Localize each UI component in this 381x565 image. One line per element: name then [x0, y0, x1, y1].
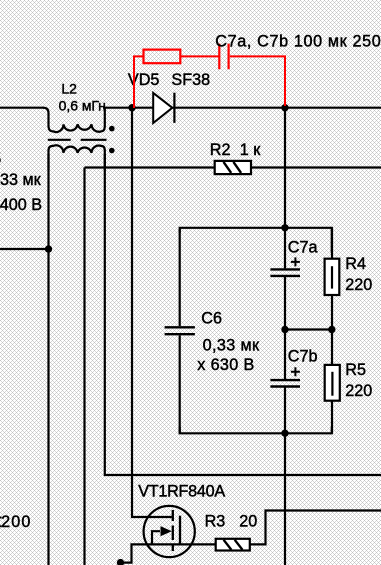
svg-text:C7a: C7a: [288, 238, 318, 256]
capacitor C7a plates: [270, 269, 300, 276]
resistor R2 slashes: [224, 162, 242, 173]
resistor R4 body: [325, 259, 340, 295]
wire: vertical V2 x=84.5 (R2 wire down to bottom): [83, 168, 85, 565]
wire: vertical V3 x=104.8 down from bottom winding, corner to right: [105, 154, 381, 475]
snubber resistor (red) leads: [134, 56, 285, 108]
node: junction V1/y249: [45, 245, 52, 252]
svg-text:0,33 мк: 0,33 мк: [0, 171, 42, 189]
MOSFET VT1 right electrode bar: [179, 516, 181, 546]
svg-text:R3: R3: [205, 513, 226, 531]
svg-text:R2: R2: [210, 141, 231, 159]
wire: vertical V5 x=285 from bus down to bottom edge: [284, 108, 286, 565]
svg-text:220: 220: [345, 276, 372, 294]
svg-text:х 630 В: х 630 В: [197, 356, 254, 374]
MOSFET VT1 arrow shaft and L-wire: [152, 531, 160, 544]
resistor R5 body: [325, 365, 340, 401]
wire: mid junction horizontal y=329.5: [285, 328, 332, 330]
node: junction loop bottom x=285: [281, 430, 288, 437]
resistor R5 inner mark: [331, 372, 333, 396]
wire: C6 branch vertical x=179.7: [179, 229, 181, 433]
wire: main top bus y=107.7 left segment: [0, 107, 44, 109]
svg-text:220: 220: [345, 382, 372, 400]
svg-text:L2: L2: [61, 80, 77, 96]
wire: loop bottom y=433: [180, 427, 332, 433]
svg-text:C6: C6: [201, 309, 222, 327]
inductor L2 bottom winding: [49, 145, 105, 170]
svg-text:1 к: 1 к: [240, 141, 262, 159]
node: bus junction at x=285: [281, 104, 288, 111]
capacitor C7b plates: [270, 380, 300, 386]
resistor R2 body: [215, 161, 251, 174]
diode VD5 cathode bar: [173, 93, 175, 123]
svg-text:SF38: SF38: [171, 71, 210, 89]
inductor L2 top winding: [43, 108, 105, 132]
svg-text:400 В: 400 В: [0, 196, 42, 214]
L2 core line (two dashes): [48, 139, 107, 141]
resistor R4 leads: [331, 228, 333, 330]
wire: R2 horizontal y=167.5: [85, 166, 381, 168]
wire: loop top y=227.8: [180, 228, 332, 253]
svg-text:5: 5: [0, 150, 1, 168]
svg-text:0,33 мк: 0,33 мк: [203, 337, 260, 355]
resistor R5 leads: [331, 330, 333, 434]
node: source end dot: [117, 559, 124, 565]
node: junction mid x=285: [281, 326, 288, 333]
node: junction loop top x=285: [281, 224, 288, 231]
snubber resistor (red) body: [144, 50, 181, 64]
capacitor C7a plus sign: [291, 257, 300, 266]
MOSFET VT1 channel dashed line: [172, 510, 174, 551]
capacitor C6 plates: [165, 327, 195, 334]
resistor R4 inner mark: [331, 266, 333, 288]
svg-text:C7a, C7b 100 мк 250: C7a, C7b 100 мк 250: [215, 32, 380, 50]
svg-text:C7b: C7b: [288, 348, 318, 366]
svg-text:VT1RF840A: VT1RF840A: [138, 483, 225, 501]
L2 polarity dot top: [109, 126, 115, 132]
L2 polarity dot bottom: [109, 148, 115, 154]
svg-text:R4: R4: [345, 255, 366, 273]
svg-text:20: 20: [239, 513, 257, 531]
wire: horizontal into V1 at y=249: [0, 248, 49, 250]
wire: vertical V4 x=132 from bus down, corner to MOSFET gate: [132, 108, 172, 517]
resistor R3 body: [216, 539, 250, 551]
MOSFET VT1 arrow head: [161, 527, 171, 536]
svg-text:200: 200: [1, 513, 30, 531]
resistor R3 slashes: [224, 540, 243, 550]
svg-text:0,6 мГн: 0,6 мГн: [59, 98, 106, 114]
svg-text:R5: R5: [345, 361, 366, 379]
label fragment before 200: [0, 517, 2, 519]
wire: R3 right lead up and right: [250, 511, 381, 545]
node: junction mid x=331.8: [328, 326, 335, 333]
diode VD5 triangle: [153, 93, 172, 123]
wire: main top bus y=107.7 right segment: [103, 107, 381, 109]
snubber capacitor (red) plates: [219, 44, 228, 70]
MOSFET VT1 source horizontal wire: [121, 544, 216, 562]
svg-text:VD5: VD5: [128, 71, 159, 89]
capacitor C7b plus sign: [291, 367, 300, 376]
MOSFET VT1 circle: [144, 506, 195, 557]
node: bus junction at x=132: [128, 104, 135, 111]
wire: vertical V1 x=48.5 from bottom winding to bottom edge: [47, 154, 49, 565]
